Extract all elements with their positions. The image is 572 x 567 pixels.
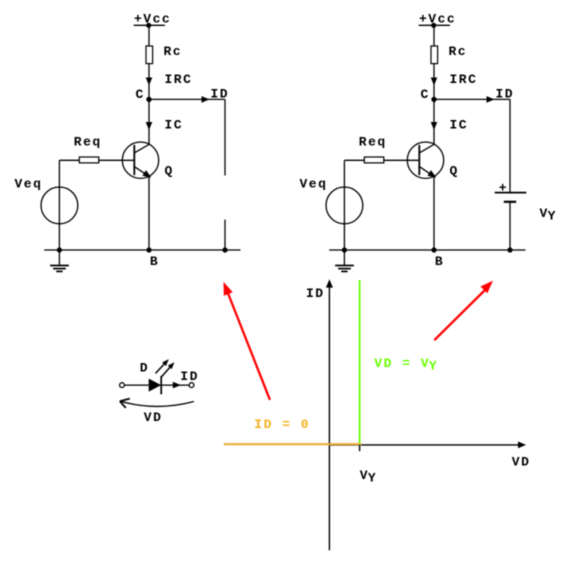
svg-text:ID: ID	[306, 286, 325, 301]
svg-text:+: +	[499, 181, 508, 196]
svg-text:VD: VD	[144, 410, 163, 425]
svg-text:ID = 0: ID = 0	[254, 417, 310, 432]
svg-text:ID: ID	[180, 369, 199, 384]
svg-text:VD: VD	[512, 455, 531, 470]
svg-text:VY: VY	[540, 206, 557, 224]
svg-text:VD = VY: VD = VY	[374, 356, 438, 374]
svg-text:D: D	[140, 361, 149, 376]
svg-text:VY: VY	[360, 468, 377, 486]
